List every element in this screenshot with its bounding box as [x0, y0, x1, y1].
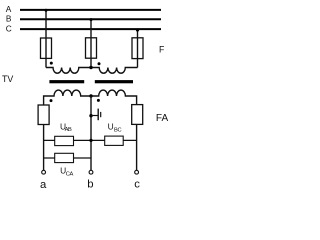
svg-text:a: a: [40, 179, 47, 191]
svg-text:AB: AB: [65, 127, 72, 133]
svg-text:TV: TV: [2, 74, 13, 84]
svg-text:C: C: [6, 24, 12, 34]
svg-text:b: b: [87, 179, 93, 191]
svg-text:U: U: [108, 122, 114, 132]
svg-text:B: B: [6, 14, 12, 24]
svg-text:FA: FA: [156, 113, 169, 124]
svg-text:CA: CA: [66, 172, 74, 178]
svg-text:c: c: [134, 179, 140, 191]
svg-text:A: A: [6, 4, 12, 14]
svg-text:F: F: [159, 45, 165, 55]
svg-text:BC: BC: [114, 127, 121, 133]
